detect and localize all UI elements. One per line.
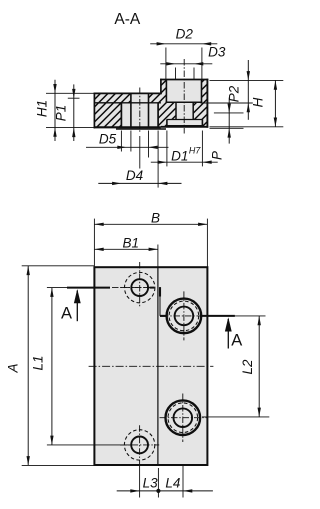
plate body — [94, 267, 207, 465]
right counterbore bottom — [166, 101, 203, 103]
hole bottom-right: hidden circle (dashed) — [168, 403, 198, 433]
outline: boss right edge — [206, 79, 208, 128]
recess insert strip bottom line — [167, 125, 203, 127]
hole top-right: horizontal centerline — [162, 315, 207, 317]
hole bottom-right: vertical centerline — [182, 394, 184, 443]
dim P1 extension line — [68, 97, 80, 99]
svg-text:L3: L3 — [143, 475, 159, 490]
section cutting line: corner jog thick vertical — [159, 287, 161, 296]
outline: boss left edge — [160, 79, 162, 95]
hole bottom-left: horizontal centerline — [120, 444, 159, 446]
hole top-left: horizontal centerline — [120, 287, 151, 289]
hole top-right: hidden circle (dashed) — [169, 301, 199, 331]
dim D4 line — [98, 182, 181, 184]
dim P1 line — [73, 84, 75, 141]
section cutting line: thin mid (dash-dot) — [112, 287, 150, 289]
section cutting line: left thick entry — [67, 287, 110, 289]
svg-text:H1: H1 — [34, 100, 49, 117]
dim H bottom extension line — [210, 126, 284, 128]
svg-text:A: A — [231, 332, 242, 350]
right bore D3 wall left — [175, 102, 177, 119]
plate horizontal centerline — [89, 365, 214, 367]
svg-text:H7: H7 — [189, 146, 201, 156]
outline: boss bottom edge — [161, 126, 208, 128]
dim H1 line — [54, 80, 56, 141]
dim L3/L4 line — [117, 490, 213, 492]
svg-text:D5: D5 — [99, 132, 117, 147]
dim L1 line — [51, 288, 53, 445]
recess D1 wall left — [166, 119, 168, 127]
left hole counterbore wall left — [120, 103, 122, 128]
hole bottom-right: outer circle — [166, 400, 201, 435]
outline: boss top edge — [160, 79, 208, 81]
hole bottom-left: vertical centerline — [139, 425, 141, 464]
dim B1 line — [94, 248, 157, 250]
hole top-left: bore circle — [131, 279, 148, 296]
section cutting line: right thick exit — [201, 315, 235, 317]
dim P extension lines — [214, 112, 244, 114]
svg-text:D1: D1 — [171, 149, 188, 164]
svg-text:P: P — [209, 151, 224, 160]
left hole centerline — [139, 88, 141, 134]
hole bottom-left: hidden counterbore circle (dashed) — [124, 430, 154, 460]
recess D1 wall right — [201, 119, 203, 127]
dim L2 bottom extension line — [202, 416, 269, 418]
dim D3 line — [160, 63, 212, 65]
dim L2 line — [258, 316, 260, 417]
hole bottom-right: inner bore circle — [174, 408, 193, 427]
left hole bore wall left — [130, 93, 132, 127]
svg-text:A-A: A-A — [114, 11, 141, 28]
outline: left block top edge — [94, 92, 162, 94]
svg-text:D4: D4 — [126, 168, 143, 183]
svg-text:L2: L2 — [240, 359, 255, 375]
hole bottom-right: horizontal centerline — [160, 417, 208, 419]
dim B line — [94, 223, 207, 225]
outline: left block left edge — [93, 93, 95, 129]
dim D1 line — [151, 161, 218, 163]
left hole bore wall right — [148, 93, 150, 127]
dim D2 line — [150, 43, 217, 45]
top extension line (boss top, shared P2/H) — [210, 79, 284, 81]
svg-text:D3: D3 — [208, 45, 226, 60]
svg-text:A: A — [5, 363, 20, 373]
hole bottom-left: bore circle — [131, 437, 148, 454]
svg-text:B: B — [151, 211, 160, 226]
hole top-right: inner bore circle — [175, 307, 194, 326]
chained dim dot — [156, 489, 160, 493]
hole top-right: outer circle — [167, 299, 202, 334]
dim H line — [274, 80, 276, 126]
dim P2 line — [247, 60, 249, 120]
extension lines below right recess — [166, 131, 168, 167]
dim B extension lines — [93, 219, 95, 267]
dim D2 extension lines — [165, 48, 167, 80]
svg-text:A: A — [61, 305, 72, 323]
outline: bottom edge under left hole (thickened) — [116, 128, 166, 130]
hole top-right: vertical centerline — [183, 291, 185, 340]
hole top-left: vertical centerline — [139, 262, 141, 308]
svg-text:L1: L1 — [31, 355, 46, 370]
left block mid line / counterbore ceiling — [94, 102, 160, 104]
step edge line — [157, 267, 159, 465]
section cutting line: lower corner thick horizontal — [160, 315, 166, 317]
svg-text:P1: P1 — [54, 105, 69, 122]
hatched cut material — [94, 80, 207, 128]
svg-text:B1: B1 — [123, 235, 140, 250]
section arrow left (A) — [76, 291, 78, 322]
svg-text:L4: L4 — [165, 475, 180, 490]
svg-text:H: H — [251, 97, 266, 107]
outline: bottom edge left part — [94, 126, 161, 128]
dim B1 right extension line — [157, 245, 159, 267]
section line right thin extension — [235, 315, 266, 317]
recess D1 top line — [167, 119, 203, 121]
left hole counterbore wall right — [157, 103, 159, 128]
L3/L4 extension lines below plate — [139, 466, 141, 498]
section cutting line: corner jog thick horizontal — [150, 287, 155, 289]
dim A line — [27, 266, 29, 466]
hole top-left: hidden counterbore circle (dashed) — [125, 272, 155, 302]
part body gray fill — [94, 80, 207, 128]
dim P2 bottom extension line — [201, 102, 253, 104]
dim A extension lines — [22, 265, 94, 267]
right hole centerline — [183, 59, 185, 134]
dim P line — [228, 98, 230, 144]
extension lines below left hole — [120, 131, 122, 152]
dim H1 extension lines — [46, 92, 94, 94]
right counterbore D2 wall left — [165, 80, 167, 103]
right bore D3 wall right — [192, 102, 194, 119]
dim D3 extension lines — [175, 68, 177, 80]
dim L1 extension lines — [47, 287, 67, 289]
section arrow right (A) — [227, 319, 229, 349]
svg-text:D2: D2 — [176, 27, 194, 42]
right counterbore D2 wall right — [201, 80, 203, 103]
section cutting line: jog thin vertical — [159, 297, 161, 316]
dim D5 line — [86, 146, 169, 148]
